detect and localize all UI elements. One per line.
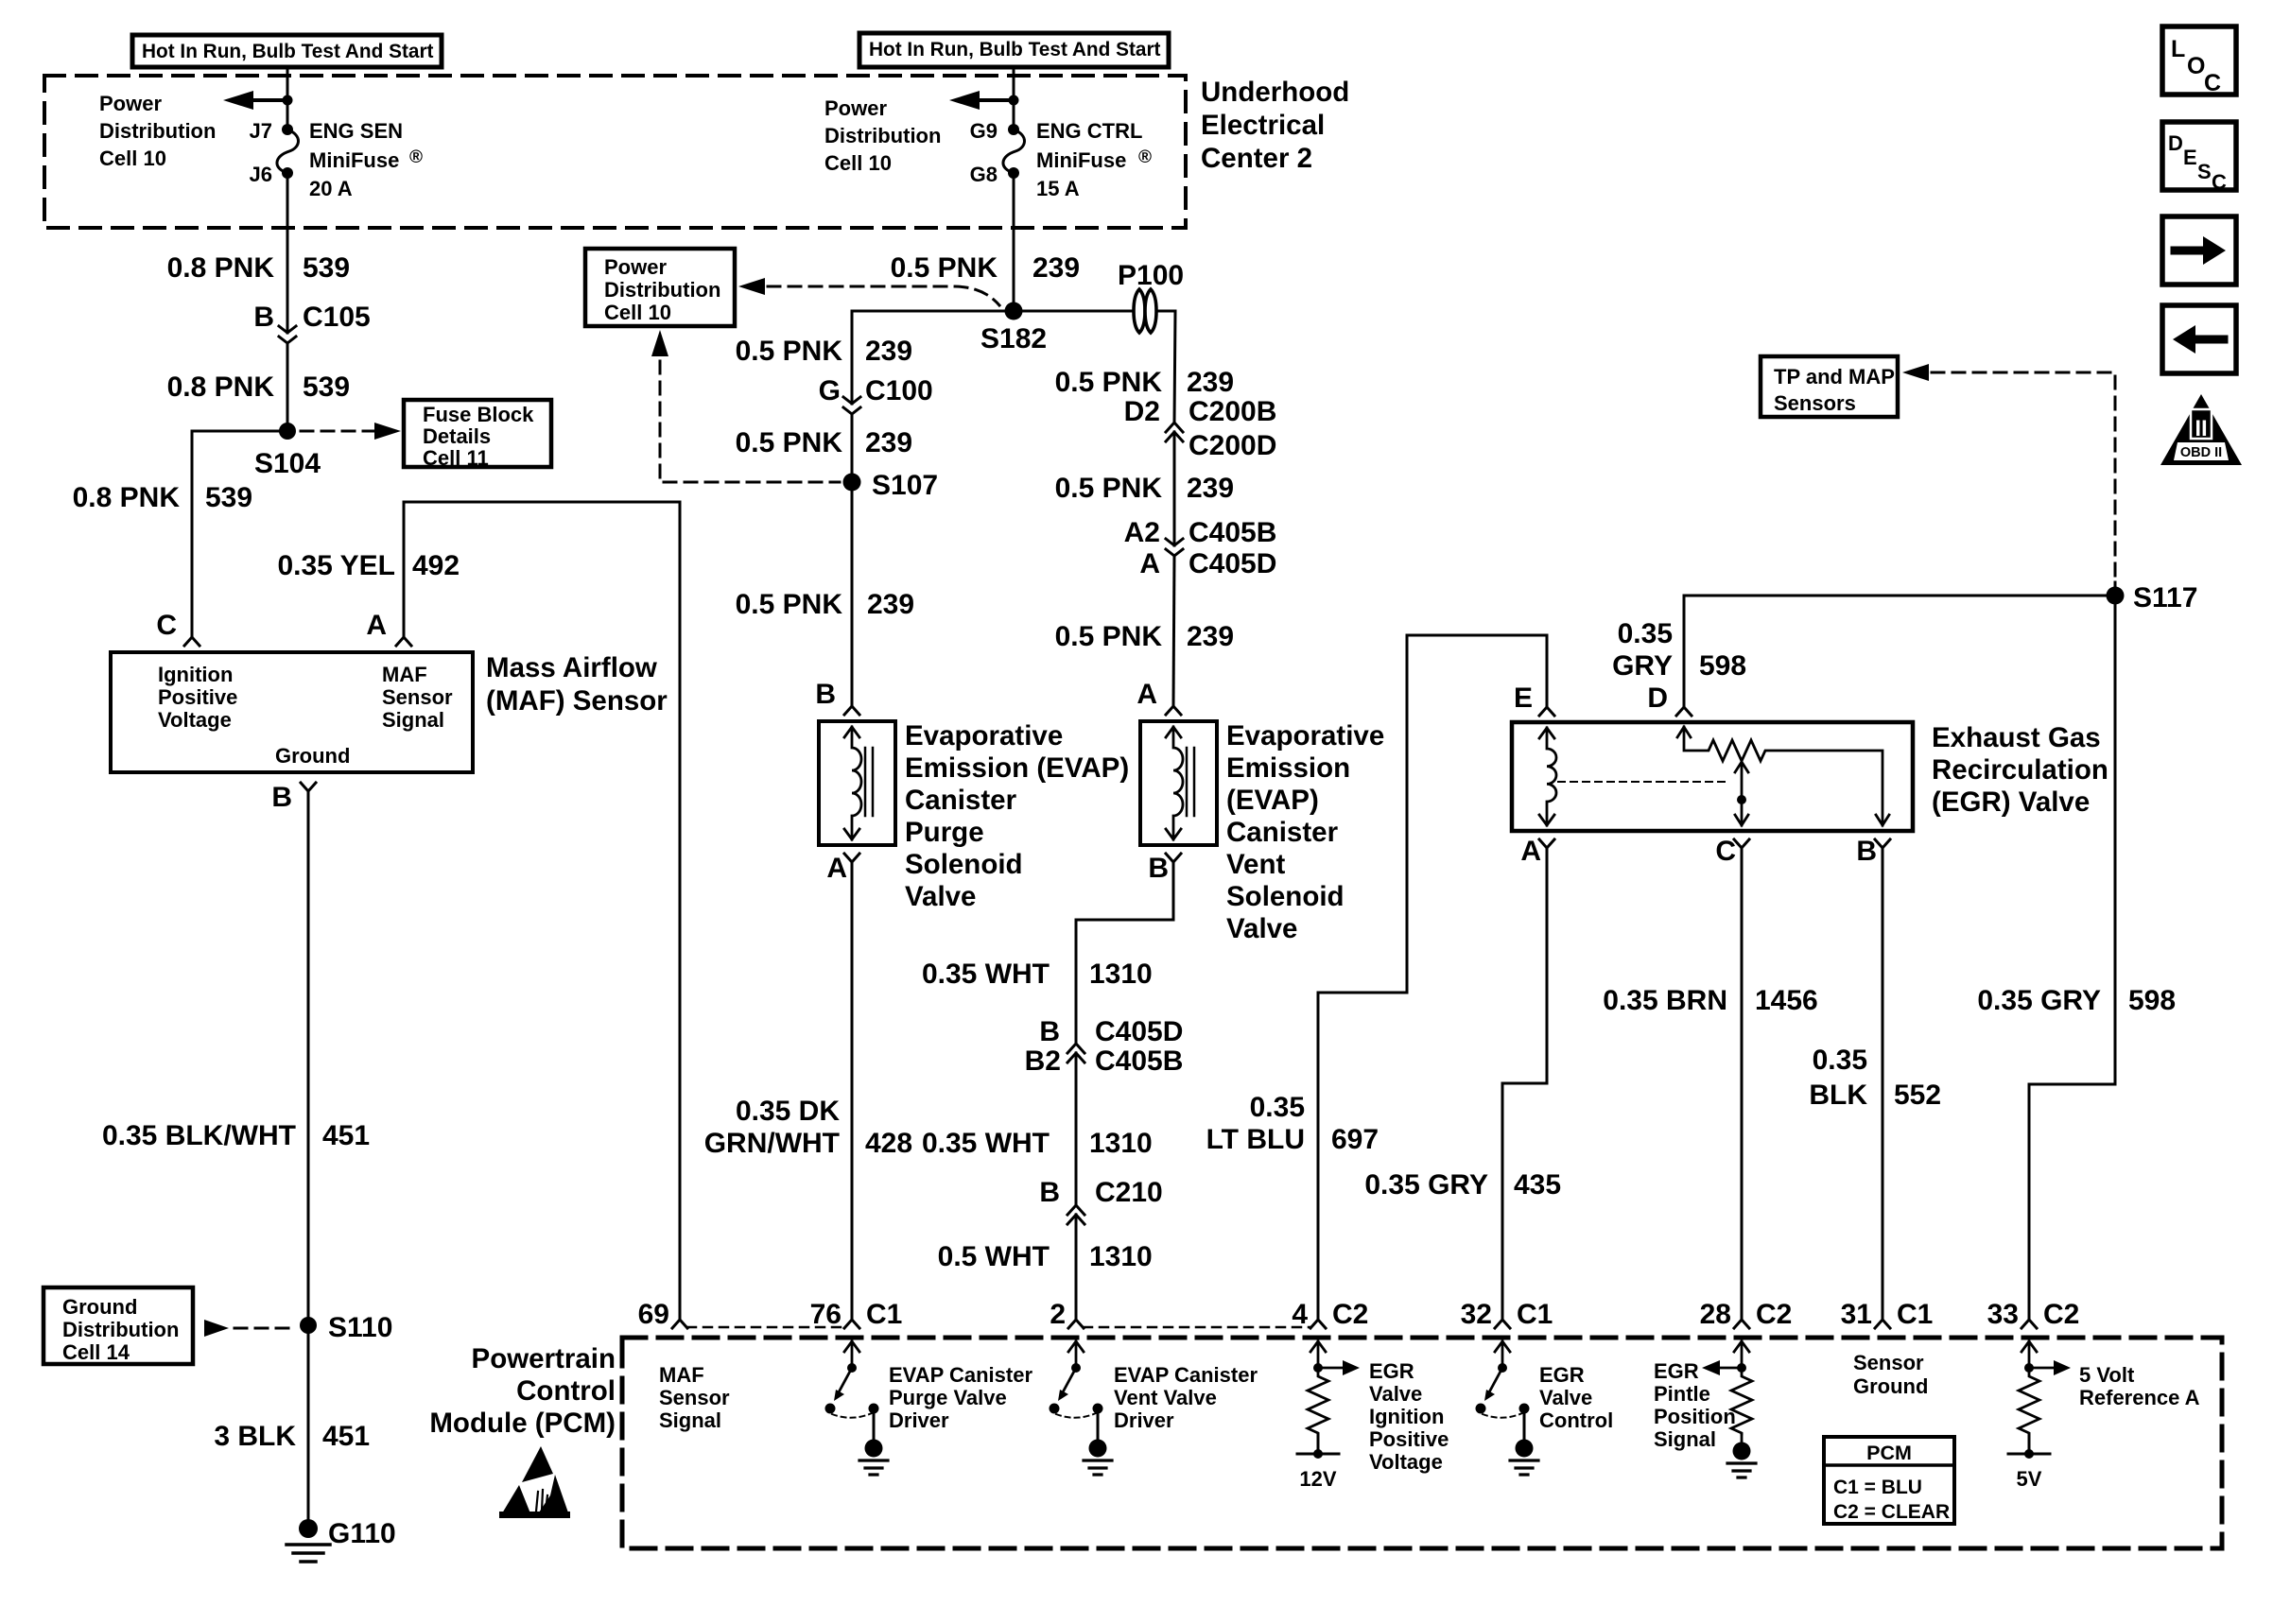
label box: Ground Distribution Cell 14	[43, 1287, 193, 1364]
label: A C405D	[1139, 548, 1276, 579]
coil: EGR solenoid winding	[1539, 728, 1556, 825]
svg-text:S110: S110	[328, 1312, 392, 1343]
wire: 0.35 DK GRN/WHT 428 purge A to PCM pin 76	[851, 862, 854, 1320]
svg-text:Positive: Positive	[1369, 1427, 1449, 1451]
wire: S182 bus right to P100	[1014, 310, 1132, 313]
svg-text:C210: C210	[1095, 1177, 1163, 1208]
svg-text:Evaporative: Evaporative	[1226, 720, 1384, 752]
svg-text:Sensors: Sensors	[1774, 391, 1856, 415]
svg-text:0.35 YEL: 0.35 YEL	[277, 550, 395, 581]
svg-text:C405D: C405D	[1189, 548, 1276, 579]
wire: C200D to C405B	[1173, 432, 1176, 545]
svg-text:239: 239	[1187, 367, 1234, 398]
svg-text:0.35 BLK/WHT: 0.35 BLK/WHT	[102, 1120, 296, 1151]
connector C100 inline	[843, 397, 860, 414]
label: pin A (EGR)	[1520, 836, 1541, 867]
splice S104	[279, 423, 296, 440]
svg-text:A: A	[1136, 679, 1157, 710]
terminal: EGR pin C	[1734, 839, 1749, 848]
driver: EVAP Canister Purge Valve Driver (pin 76)	[825, 1341, 889, 1475]
label: 0.8 PNK 539 (second)	[167, 371, 350, 403]
wire: 0.8 PNK 539 from fuse J6 to connector C105	[286, 173, 289, 333]
label box: TP and MAP Sensors	[1761, 356, 1898, 417]
label box: Hot In Run, Bulb Test And Start (right)	[859, 33, 1169, 67]
svg-text:492: 492	[412, 550, 460, 581]
svg-text:0.8 PNK: 0.8 PNK	[167, 252, 275, 284]
label: S104	[254, 448, 321, 479]
label: pin B (vent)	[1148, 853, 1169, 884]
label: Powertrain Control Module (PCM)	[429, 1343, 616, 1439]
svg-text:Powertrain: Powertrain	[472, 1343, 616, 1374]
svg-text:69: 69	[638, 1299, 669, 1330]
wire: 0.8 PNK 539 from S104 to MAF pin C	[192, 431, 287, 637]
label: 0.35 WHT 1310 (second)	[922, 1128, 1153, 1159]
svg-text:C: C	[1715, 836, 1736, 867]
label: Evaporative Emission (EVAP) Canister Vent Solenoid Valve	[1226, 720, 1384, 944]
label: 0.8 PNK 539	[167, 252, 350, 284]
label: pin D (EGR)	[1647, 682, 1668, 714]
svg-text:A: A	[1139, 548, 1160, 579]
wire: C100 to S107	[851, 414, 854, 482]
terminal: PCM pin 4	[1310, 1320, 1326, 1328]
wire: 0.5 WHT 1310 C210 to PCM pin 2	[1075, 1215, 1078, 1320]
fuse terminal J7 dot	[282, 124, 293, 135]
terminal: EGR pin A	[1539, 839, 1554, 848]
svg-text:239: 239	[1187, 621, 1234, 652]
svg-text:B: B	[1148, 853, 1169, 884]
core: vent solenoid core lines	[1187, 748, 1194, 816]
svg-text:C405D: C405D	[1095, 1016, 1183, 1047]
driver: EVAP Canister Vent Valve Driver (pin 2)	[1050, 1341, 1113, 1475]
label: G C100	[819, 375, 933, 406]
label: 0.35 LT BLU 697	[1206, 1092, 1379, 1155]
wire: 0.35 GRY 598 S117 to PCM pin 33	[2029, 596, 2115, 1320]
dashed ref: S107 up to Power Distribution box	[651, 330, 840, 482]
icon: OBD II triangle	[2160, 394, 2242, 465]
svg-text:Valve: Valve	[1226, 913, 1297, 944]
svg-text:1456: 1456	[1755, 985, 1818, 1016]
svg-text:Valve: Valve	[905, 881, 976, 912]
label: 5V	[2017, 1467, 2042, 1491]
dashed ref: TP and MAP Sensors to S117	[1902, 364, 2115, 580]
wire: 0.35 GRY 598 EGR D up to S117	[1684, 596, 2115, 707]
svg-text:EVAP Canister: EVAP Canister	[1114, 1363, 1258, 1387]
label: ENG CTRL MiniFuse 15 A	[1036, 119, 1152, 200]
svg-text:0.35 BRN: 0.35 BRN	[1603, 985, 1727, 1016]
svg-text:1310: 1310	[1089, 1241, 1153, 1272]
wire: 0.35 BLK/WHT 451 from MAF B to S110	[307, 791, 310, 1325]
label: Underhood Electrical Center 2	[1201, 77, 1349, 174]
connector P100 grommet	[1134, 289, 1156, 333]
svg-text:Signal: Signal	[382, 708, 444, 732]
terminal: MAF pin C	[184, 637, 200, 646]
splice S110	[300, 1317, 317, 1334]
svg-text:3 BLK: 3 BLK	[214, 1421, 296, 1452]
terminal: MAF pin A	[396, 637, 411, 646]
svg-text:G: G	[819, 375, 841, 406]
label: 0.5 WHT 1310	[938, 1241, 1153, 1272]
svg-text:B: B	[815, 679, 836, 710]
svg-text:C2: C2	[1756, 1299, 1792, 1330]
icon: DESC box	[2162, 122, 2236, 194]
svg-text:G8: G8	[970, 163, 998, 186]
svg-text:A: A	[1520, 836, 1541, 867]
svg-text:0.35 WHT: 0.35 WHT	[922, 1128, 1050, 1159]
wire: from Hot In Run box down to fuse ENG SEN	[286, 67, 289, 130]
svg-text:Ignition: Ignition	[1369, 1405, 1444, 1428]
svg-text:Vent: Vent	[1226, 849, 1285, 880]
svg-text:Sensor: Sensor	[659, 1386, 730, 1409]
label: MAF Sensor Signal (inside MAF)	[382, 663, 453, 732]
label: 0.8 PNK 539 (to MAF C)	[73, 482, 252, 513]
dashed arrow: S104 to Fuse Block Details	[301, 423, 401, 440]
svg-text:Evaporative: Evaporative	[905, 720, 1063, 752]
dashed arrow: Ground Distribution ref to S110	[204, 1320, 297, 1337]
svg-text:428: 428	[865, 1128, 912, 1159]
label: pin E (EGR)	[1514, 682, 1533, 714]
label: A2 C405B	[1124, 517, 1277, 548]
label: C200D	[1189, 430, 1276, 461]
svg-text:D: D	[1647, 682, 1668, 714]
svg-text:Solenoid: Solenoid	[1226, 881, 1345, 912]
svg-text:Cell 11: Cell 11	[423, 446, 489, 470]
svg-text:451: 451	[322, 1421, 370, 1452]
terminal: vent solenoid pin A	[1166, 706, 1181, 715]
component: Mass Airflow (MAF) Sensor box	[111, 652, 473, 772]
svg-text:Pintle: Pintle	[1654, 1382, 1710, 1406]
label: MAF Sensor Signal (PCM pin 69)	[659, 1363, 730, 1432]
svg-text:Cell 14: Cell 14	[62, 1340, 130, 1364]
svg-text:697: 697	[1331, 1124, 1379, 1155]
label: pin 4 C2	[1292, 1299, 1368, 1330]
svg-text:LT BLU: LT BLU	[1206, 1124, 1305, 1155]
terminal: vent solenoid pin B	[1166, 854, 1181, 862]
svg-text:C2: C2	[1332, 1299, 1368, 1330]
svg-text:Module (PCM): Module (PCM)	[429, 1408, 616, 1439]
label: pin B (purge)	[815, 679, 836, 710]
label: P100	[1118, 260, 1184, 291]
component: EVAP Canister Vent Solenoid Valve box	[1140, 721, 1217, 845]
svg-text:31: 31	[1841, 1299, 1872, 1330]
svg-text:B: B	[1856, 836, 1877, 867]
svg-text:J7: J7	[250, 119, 272, 143]
svg-text:C1: C1	[866, 1299, 902, 1330]
svg-text:0.5 PNK: 0.5 PNK	[1055, 367, 1163, 398]
label: B C405D (lower)	[1039, 1016, 1183, 1047]
svg-text:(MAF) Sensor: (MAF) Sensor	[486, 685, 668, 717]
svg-text:Details: Details	[423, 424, 491, 448]
label: 0.5 PNK 239 (to vent valve)	[1055, 621, 1234, 652]
sense: EGR Pintle Position Signal (pin 28)	[1702, 1341, 1756, 1477]
svg-text:Electrical: Electrical	[1201, 110, 1325, 141]
svg-text:239: 239	[865, 336, 912, 367]
svg-text:435: 435	[1514, 1169, 1561, 1201]
svg-text:0.35: 0.35	[1618, 618, 1673, 649]
label box: Power Distribution Cell 10 (center)	[585, 249, 735, 326]
svg-text:Valve: Valve	[1369, 1382, 1422, 1406]
svg-text:B: B	[1039, 1177, 1060, 1208]
wire: from Hot In Run box down to fuse ENG CTRL	[1013, 67, 1015, 130]
splice S107	[843, 474, 861, 492]
label: pin 69	[638, 1299, 669, 1330]
svg-text:Cell 10: Cell 10	[99, 147, 166, 170]
svg-text:C: C	[2212, 170, 2227, 194]
label: B C210	[1039, 1177, 1162, 1208]
label: G110	[328, 1518, 396, 1549]
svg-text:Driver: Driver	[1114, 1408, 1174, 1432]
svg-text:0.5 WHT: 0.5 WHT	[938, 1241, 1050, 1272]
svg-text:0.5 PNK: 0.5 PNK	[1055, 473, 1163, 504]
label: pin A (vent)	[1136, 679, 1157, 710]
svg-text:C: C	[156, 610, 177, 641]
svg-text:S117: S117	[2133, 582, 2197, 613]
label: 0.35 BLK/WHT 451	[102, 1120, 370, 1151]
svg-text:B2: B2	[1025, 1045, 1061, 1077]
label: 0.5 PNK 239 (to purge valve)	[736, 589, 914, 620]
svg-text:G110: G110	[328, 1518, 396, 1549]
label: 0.5 PNK 239 (fuse output)	[891, 252, 1080, 284]
svg-text:Power: Power	[824, 96, 887, 120]
svg-text:539: 539	[303, 252, 350, 284]
label: B C105	[253, 302, 370, 333]
junction dot on feed branch	[283, 95, 293, 106]
label: ENG SEN MiniFuse 20 A	[309, 119, 423, 200]
module: Powertrain Control Module (PCM) dashed box	[622, 1338, 2222, 1548]
label box: Fuse Block Details Cell 11	[404, 400, 551, 470]
label: 3 BLK 451	[214, 1421, 370, 1452]
svg-text:Signal: Signal	[659, 1408, 721, 1432]
svg-text:A2: A2	[1124, 517, 1160, 548]
label: G9	[970, 119, 998, 143]
label: 0.35 GRY 435	[1364, 1169, 1561, 1201]
svg-text:598: 598	[1699, 650, 1746, 682]
icon: next page arrow box	[2162, 216, 2236, 285]
svg-text:C200B: C200B	[1189, 396, 1276, 427]
svg-text:Center 2: Center 2	[1201, 143, 1312, 174]
svg-text:Underhood: Underhood	[1201, 77, 1349, 108]
svg-text:A: A	[826, 853, 847, 884]
svg-text:TP and MAP: TP and MAP	[1774, 365, 1895, 389]
connector C210 inline (up)	[1067, 1205, 1084, 1224]
svg-text:0.35: 0.35	[1250, 1092, 1305, 1123]
svg-text:Control: Control	[1539, 1408, 1613, 1432]
label: 0.5 PNK 239 (right branch)	[1055, 367, 1234, 398]
label: S117	[2133, 582, 2197, 613]
svg-text:0.35 WHT: 0.35 WHT	[922, 959, 1050, 990]
label: Evaporative Emission (EVAP) Canister Purge Solenoid Valve	[905, 720, 1129, 912]
label: 0.35 BLK 552	[1809, 1045, 1941, 1111]
svg-text:C1: C1	[1517, 1299, 1553, 1330]
svg-text:C405B: C405B	[1095, 1045, 1183, 1077]
splice S117	[2107, 587, 2125, 605]
svg-text:L: L	[2171, 36, 2185, 62]
svg-text:A: A	[366, 610, 387, 641]
fuse ENG SEN MiniFuse 20A element	[277, 130, 299, 173]
label: pin B (MAF)	[271, 782, 292, 813]
svg-text:Control: Control	[516, 1375, 616, 1407]
svg-text:®: ®	[1138, 147, 1152, 167]
pullup: EGR Valve Ignition Positive Voltage (pin 4, 12V)	[1297, 1341, 1360, 1459]
svg-text:Voltage: Voltage	[1369, 1450, 1443, 1474]
svg-text:Exhaust Gas: Exhaust Gas	[1932, 722, 2101, 753]
svg-text:EGR: EGR	[1539, 1363, 1585, 1387]
svg-text:(EVAP): (EVAP)	[1226, 785, 1319, 816]
svg-text:J6: J6	[250, 163, 272, 186]
terminal: EGR pin B	[1875, 839, 1890, 848]
dashed ref: S182 to Power Distribution Cell 10 box	[738, 278, 999, 305]
label: Ground (inside MAF)	[275, 744, 350, 768]
label: S107	[872, 470, 938, 501]
svg-text:239: 239	[867, 589, 914, 620]
symbol: ESD sensitive device triangle	[499, 1446, 570, 1518]
svg-text:0.8 PNK: 0.8 PNK	[167, 371, 275, 403]
svg-text:Emission (EVAP): Emission (EVAP)	[905, 752, 1129, 784]
svg-text:PCM: PCM	[1866, 1442, 1912, 1464]
svg-text:0.8 PNK: 0.8 PNK	[73, 482, 181, 513]
svg-text:P100: P100	[1118, 260, 1184, 291]
svg-text:4: 4	[1292, 1299, 1308, 1330]
svg-text:0.5 PNK: 0.5 PNK	[736, 589, 843, 620]
connector C200B/C200D inline	[1166, 423, 1183, 441]
svg-text:76: 76	[810, 1299, 842, 1330]
label: Exhaust Gas Recirculation (EGR) Valve	[1932, 722, 2108, 818]
svg-text:Ground: Ground	[62, 1295, 137, 1319]
svg-text:Signal: Signal	[1654, 1427, 1716, 1451]
svg-text:C2: C2	[2043, 1299, 2079, 1330]
label: EGR Valve Ignition Positive Voltage	[1369, 1359, 1449, 1474]
fuse terminal G8 dot	[1008, 167, 1019, 179]
svg-text:32: 32	[1461, 1299, 1492, 1330]
svg-text:0.5 PNK: 0.5 PNK	[736, 336, 843, 367]
svg-text:0.35 DK: 0.35 DK	[736, 1096, 840, 1127]
svg-text:Fuse Block: Fuse Block	[423, 403, 534, 426]
svg-text:MAF: MAF	[659, 1363, 704, 1387]
svg-text:ENG SEN: ENG SEN	[309, 119, 403, 143]
label: 0.35 DK GRN/WHT 428	[704, 1096, 912, 1159]
svg-text:B: B	[1039, 1016, 1060, 1047]
svg-text:Vent Valve: Vent Valve	[1114, 1386, 1217, 1409]
svg-text:552: 552	[1894, 1080, 1941, 1111]
label: 0.35 WHT 1310	[922, 959, 1153, 990]
svg-text:0.35 GRY: 0.35 GRY	[1977, 985, 2101, 1016]
label: B2 C405B (lower)	[1025, 1045, 1184, 1077]
svg-text:2: 2	[1050, 1299, 1066, 1330]
terminal: purge solenoid pin B	[844, 706, 859, 715]
svg-text:0.35 GRY: 0.35 GRY	[1364, 1169, 1488, 1201]
fuse terminal J6 dot	[282, 167, 293, 179]
svg-text:GRY: GRY	[1612, 650, 1673, 682]
svg-text:Canister: Canister	[905, 785, 1017, 816]
svg-text:S104: S104	[254, 448, 321, 479]
terminal: PCM pin 31	[1875, 1320, 1890, 1328]
terminal: PCM pin 33	[2021, 1320, 2037, 1328]
label: G8	[970, 163, 998, 186]
label: pin 28 C2	[1700, 1299, 1793, 1330]
label: 0.35 BRN 1456	[1603, 985, 1817, 1016]
label: J7	[250, 119, 272, 143]
core: purge solenoid core lines	[865, 748, 873, 816]
label: pin B (EGR)	[1856, 836, 1877, 867]
svg-text:Recirculation: Recirculation	[1932, 754, 2108, 786]
label: pin 33 C2	[1987, 1299, 2080, 1330]
svg-text:MAF: MAF	[382, 663, 427, 686]
terminal: PCM pin 69	[672, 1320, 687, 1328]
arrow: branch to Power Distribution (right fuse)	[949, 91, 1014, 110]
svg-text:0.5 PNK: 0.5 PNK	[891, 252, 998, 284]
label: pin C	[156, 610, 177, 641]
label: Ignition Positive Voltage	[158, 663, 237, 732]
svg-text:B: B	[253, 302, 274, 333]
svg-text:ENG CTRL: ENG CTRL	[1036, 119, 1142, 143]
wire: 0.35 BLK 552 EGR B to PCM pin 31	[1882, 848, 1884, 1320]
svg-text:12V: 12V	[1299, 1467, 1336, 1491]
svg-text:C405B: C405B	[1189, 517, 1276, 548]
svg-text:Purge Valve: Purge Valve	[889, 1386, 1007, 1409]
svg-text:Sensor: Sensor	[1853, 1351, 1924, 1374]
svg-text:Hot In Run, Bulb Test And Star: Hot In Run, Bulb Test And Start	[869, 39, 1161, 60]
wire: S107 to EVAP purge pin B	[851, 482, 854, 706]
svg-text:239: 239	[1032, 252, 1080, 284]
svg-text:Ground: Ground	[275, 744, 350, 768]
label: pin 2	[1050, 1299, 1066, 1330]
terminal: EGR pin D	[1676, 707, 1692, 716]
svg-text:33: 33	[1987, 1299, 2019, 1330]
terminal: PCM pin 76	[844, 1320, 859, 1328]
svg-text:C: C	[2204, 70, 2221, 96]
svg-text:0.35: 0.35	[1813, 1045, 1867, 1076]
svg-text:5V: 5V	[2017, 1467, 2042, 1491]
wire: 0.35 LT BLU 697 EGR E to PCM pin 4	[1318, 635, 1547, 1320]
label: S182	[980, 323, 1047, 354]
terminal: PCM pin 2	[1068, 1320, 1084, 1328]
wire: S117 stub up	[2114, 582, 2117, 596]
wire: 3 BLK 451 from S110 to G110	[307, 1325, 310, 1529]
svg-text:Canister: Canister	[1226, 817, 1339, 848]
svg-text:C1: C1	[1897, 1299, 1933, 1330]
svg-text:Distribution: Distribution	[62, 1318, 179, 1341]
label: EGR Pintle Position Signal	[1654, 1359, 1736, 1451]
svg-text:239: 239	[865, 427, 912, 458]
svg-text:Hot In Run, Bulb Test And Star: Hot In Run, Bulb Test And Start	[142, 41, 434, 62]
fuse terminal G9 dot	[1008, 124, 1019, 135]
wire: P100 to right branch corner	[1158, 311, 1175, 423]
svg-text:Sensor: Sensor	[382, 685, 453, 709]
label: 0.35 GRY 598 (at EGR D)	[1612, 618, 1746, 682]
component: EVAP Canister Purge Solenoid Valve box	[819, 721, 895, 845]
svg-text:239: 239	[1187, 473, 1234, 504]
connector C405B/C405D inline (down)	[1166, 539, 1183, 556]
svg-text:Cell 10: Cell 10	[604, 301, 671, 324]
svg-text:Purge: Purge	[905, 817, 984, 848]
terminal: EGR pin E	[1539, 707, 1554, 716]
wire: 0.35 YEL 492 from MAF pin A to PCM pin 69	[404, 502, 680, 1320]
label: J6	[250, 163, 272, 186]
svg-text:E: E	[2183, 146, 2197, 169]
potentiometer: EGR pintle position sensor	[1677, 727, 1889, 825]
svg-text:(EGR) Valve: (EGR) Valve	[1932, 786, 2090, 818]
svg-text:B: B	[271, 782, 292, 813]
icon: LOC box	[2162, 26, 2236, 96]
wire: 0.35 BRN 1456 EGR C to PCM pin 28	[1741, 848, 1744, 1320]
terminal: PCM pin 32	[1495, 1320, 1510, 1328]
svg-text:28: 28	[1700, 1299, 1731, 1330]
label: pin C (EGR)	[1715, 836, 1736, 867]
label: 0.5 PNK 239 (to S107)	[736, 427, 912, 458]
label: S110	[328, 1312, 392, 1343]
splice S182	[1005, 302, 1023, 320]
driver: EGR Valve Control (pin 32)	[1476, 1341, 1539, 1475]
dashed link: EGR coil to wiper	[1558, 781, 1730, 783]
